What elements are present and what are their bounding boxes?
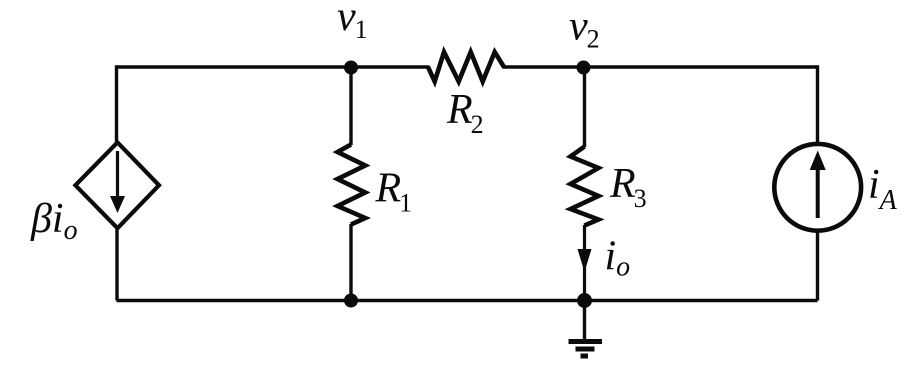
wire v2 down to R3: [583, 67, 586, 147]
ground: [569, 301, 603, 357]
wire left vertical bottom: [115, 227, 118, 301]
wire right vertical bottom: [816, 230, 819, 301]
wire bottom (ground rail): [117, 299, 818, 303]
node v1: [344, 61, 358, 75]
wire R1 bottom: [349, 224, 352, 301]
wire v1 down to R1: [349, 67, 352, 145]
node (R1 / bottom rail junction): [344, 294, 358, 308]
node v2: [577, 61, 591, 75]
independent current source iA (circle, arrow up): [774, 144, 861, 231]
current arrow i_o (down): [578, 249, 592, 272]
wire right vertical top: [816, 65, 819, 145]
wire R3 bottom: [583, 225, 586, 301]
resistor R1: [338, 145, 366, 225]
resistor R3: [571, 147, 599, 226]
wire top left segment (source to R2): [117, 65, 430, 68]
dependent current source B1 (diamond, arrow down): [75, 142, 159, 228]
node (R3 / bottom rail junction): [577, 293, 592, 308]
wire left vertical top: [115, 65, 118, 144]
resistor R2: [428, 52, 504, 82]
wire top right segment (R2 to source): [503, 65, 818, 68]
